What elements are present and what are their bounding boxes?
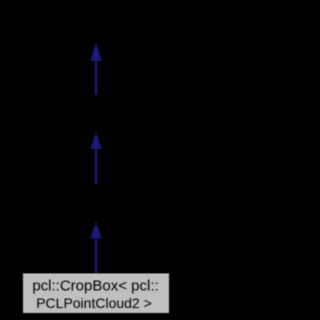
svg-text:PCLPointCloud2 >: PCLPointCloud2 >	[36, 295, 152, 311]
inheritance arrow 2 (middle)	[90, 133, 101, 185]
node pcl::CropBox< pcl::PCLPointCloud2 > (current class, grey box)	[23, 274, 169, 314]
inheritance arrow 3 (bottom, from grey node)	[90, 223, 101, 274]
inheritance arrow 1 (top, to invisible base node)	[90, 44, 101, 95]
svg-text:pcl::CropBox< pcl::: pcl::CropBox< pcl::	[32, 278, 158, 295]
